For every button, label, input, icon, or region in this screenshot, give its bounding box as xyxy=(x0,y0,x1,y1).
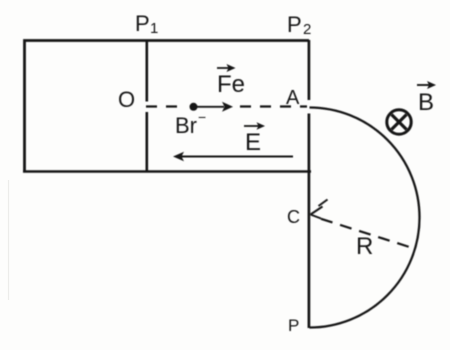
svg-text:P: P xyxy=(288,316,299,335)
svg-text:B: B xyxy=(418,89,434,116)
chamber box xyxy=(23,41,311,172)
svg-text:A: A xyxy=(286,87,300,109)
plate P2 xyxy=(308,40,311,328)
magnetic field symbol B into page xyxy=(387,110,411,134)
semicircular trajectory xyxy=(310,108,420,328)
velocity arrow xyxy=(195,102,233,112)
vector B arrow xyxy=(417,81,436,89)
dashed beam path O to A xyxy=(146,105,307,107)
scan noise left margin xyxy=(8,180,10,300)
force vector Fe arrow xyxy=(217,64,236,72)
svg-text:P: P xyxy=(135,11,150,36)
label E vector hat xyxy=(244,122,265,129)
svg-text:1: 1 xyxy=(150,20,158,37)
dashed radius R xyxy=(321,219,411,248)
svg-text:−: − xyxy=(198,109,206,125)
label P1 xyxy=(135,11,158,37)
svg-text:O: O xyxy=(118,87,135,112)
svg-text:P: P xyxy=(287,12,302,37)
label P2 xyxy=(287,12,311,38)
plate P1 xyxy=(146,40,149,171)
ion dot xyxy=(190,103,198,111)
label Br- xyxy=(175,109,206,138)
field E direction arrow xyxy=(173,152,293,162)
svg-text:Fe: Fe xyxy=(217,71,245,98)
svg-text:Br: Br xyxy=(175,113,197,138)
svg-text:C: C xyxy=(287,207,300,227)
arrow at center C xyxy=(311,200,328,219)
svg-text:E: E xyxy=(245,129,261,156)
svg-text:R: R xyxy=(356,233,373,260)
svg-text:2: 2 xyxy=(303,21,311,38)
